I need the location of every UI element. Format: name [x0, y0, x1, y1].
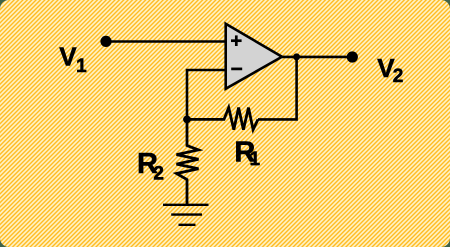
- node V1 input terminal: [100, 36, 111, 47]
- svg-text:2: 2: [153, 164, 164, 185]
- node output junction: [293, 53, 300, 60]
- op-amp minus pin mark: [231, 68, 242, 71]
- op-amp plus pin mark: [231, 35, 242, 46]
- label R1: [234, 136, 260, 170]
- node feedback junction: [183, 116, 191, 124]
- op-amp U1: [226, 24, 282, 89]
- svg-text:1: 1: [76, 56, 87, 77]
- svg-text:V: V: [59, 41, 77, 71]
- wire op-amp output to V2: [282, 56, 352, 59]
- svg-text:2: 2: [393, 66, 404, 87]
- wire V1 to op-amp + input: [106, 40, 226, 43]
- ground: [163, 205, 209, 225]
- label V1: [59, 41, 87, 77]
- wire junction to op-amp - input: [187, 70, 226, 119]
- resistor R2: [177, 119, 199, 204]
- resistor R1: [187, 108, 258, 130]
- svg-text:1: 1: [250, 149, 261, 170]
- label R2: [137, 148, 164, 184]
- label V2: [377, 53, 403, 87]
- node V2 output terminal: [347, 51, 358, 62]
- wire feedback from output down to R1: [258, 57, 297, 120]
